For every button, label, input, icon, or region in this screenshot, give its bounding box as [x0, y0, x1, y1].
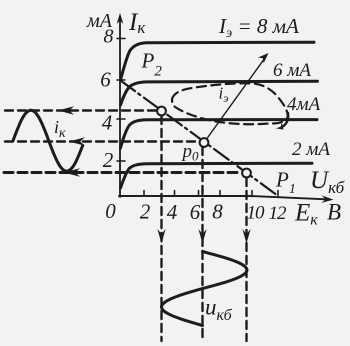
arrow left on top dashed line [58, 106, 74, 115]
svg-text:2 мА: 2 мА [292, 139, 330, 160]
svg-text:10: 10 [247, 203, 266, 224]
svg-text:2: 2 [140, 200, 151, 224]
svg-text:8: 8 [104, 26, 114, 48]
x-axis tick 4 [174, 191, 176, 197]
svg-text:6: 6 [190, 200, 201, 224]
vertical dashed line x=246.5 (from circle3 down) [245, 178, 247, 341]
svg-text:4: 4 [102, 111, 113, 135]
curve Ie=4mA [121, 120, 318, 148]
vertical dashed line x=161.5 (from circle1 down) [160, 116, 162, 341]
arrow left on bottom dashed line [64, 168, 80, 177]
svg-text:12: 12 [269, 203, 288, 224]
arrow left on middle dashed line [69, 137, 85, 146]
x-axis tick 8 [219, 191, 221, 197]
i_e sinusoid loop (dashed) [172, 83, 288, 124]
bottom sine wave u_kb (vertical) [162, 252, 248, 326]
dashed horizontal line middle (ik0) y=141.5 [5, 140, 199, 142]
svg-text:4: 4 [167, 200, 178, 224]
x-axis tick 12 [277, 191, 279, 197]
arrow hook at right end of ellipse [282, 113, 289, 127]
svg-text:2: 2 [103, 148, 114, 172]
down arrow on x=202.5 [198, 229, 206, 244]
node circle P0 (operating point) [200, 138, 209, 147]
y-axis tick 2 [117, 160, 125, 162]
x-axis tick 10 [251, 191, 253, 197]
dashed horizontal line bottom (ik min) y=172.5 [4, 171, 242, 174]
left sine wave ik [13, 110, 83, 171]
curve Ie=8mA [121, 42, 315, 80]
y-axis tick 6 [117, 79, 125, 81]
down arrow on x=246.5 [242, 229, 250, 244]
dashed horizontal line top (ik max) y=110.5 [5, 109, 157, 111]
x-axis tick 2 [143, 191, 145, 197]
svg-text:6 мА: 6 мА [273, 60, 311, 81]
curve Ie=2mA [121, 163, 313, 188]
svg-text:В: В [327, 200, 341, 225]
y-axis tick 4 [117, 118, 125, 120]
i_e axis line through P0 with arrow [203, 53, 269, 144]
y-axis I_k [117, 13, 124, 197]
node circle 1 (on load line, ik max) [157, 107, 166, 116]
svg-text:8: 8 [212, 200, 223, 224]
down arrow on x=161.5 [157, 229, 165, 244]
curve Ie=6mA [121, 81, 318, 105]
svg-text:0: 0 [105, 199, 116, 223]
x-axis U_kb [119, 195, 334, 203]
load line (dash-dot) from (120.5,80.5) to P1 end (277.5,195.5) [121, 81, 278, 196]
y-axis tick 8 [117, 38, 125, 40]
x-axis tick 6 [198, 191, 200, 197]
node circle P1 [242, 169, 251, 178]
vertical dashed line x=202.5 (from P0 down) [201, 147, 203, 341]
svg-text:6: 6 [100, 68, 111, 92]
svg-text:4мА: 4мА [287, 94, 321, 115]
